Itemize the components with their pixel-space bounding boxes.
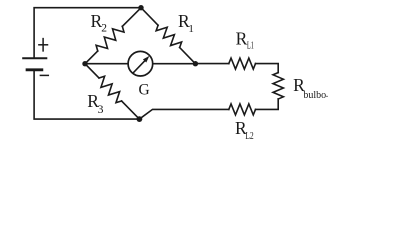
node C junction dot [193,61,198,66]
wire: node B to resistor R2 [85,51,98,64]
wire: resistor RL1 to top-right corner down to Rbulbo [256,64,279,73]
wire: resistor R1 to node C [180,48,196,64]
svg-text:G: G [139,82,150,99]
galvanometer G body [128,51,153,76]
wire: resistor R2 to node A [122,8,141,27]
resistor R3 [99,76,122,102]
svg-text:2: 2 [101,22,107,34]
svg-text:R: R [236,28,248,48]
battery BAT negative plate [27,68,42,71]
wire: node B to galvanometer [85,63,128,65]
resistor R1 [156,25,181,47]
svg-text:.: . [326,89,329,100]
wire: galvanometer to node C [153,63,196,65]
battery BAT positive plate [23,57,46,59]
node A junction dot [138,5,143,10]
resistor Rbulbo [273,73,283,99]
wire: node A to resistor R1 [141,8,158,26]
wire: battery - down and across to node D [34,70,139,119]
galvanometer G needle shaft [134,60,146,72]
wire: resistor RL2 jog down to node D [139,109,228,119]
svg-text:bulbo: bulbo [303,90,326,101]
svg-text:L2: L2 [245,131,254,142]
resistor RL1 [229,58,256,69]
wire: battery + up and across to node A [34,8,141,58]
battery minus sign [40,74,48,76]
node B junction dot [82,61,87,66]
wire: resistor R3 to node D [122,101,140,119]
wire: node C to resistor RL1 [195,63,228,65]
battery plus sign [39,39,48,51]
svg-text:1: 1 [188,23,194,35]
svg-text:3: 3 [98,102,104,116]
svg-text:L1: L1 [247,41,254,52]
resistor RL2 [229,104,256,115]
resistor R2 [96,26,124,51]
node D junction dot [137,116,143,122]
wire: Rbulbo to bottom-right corner across to resistor RL2 [256,99,279,109]
galvanometer G needle arrowhead [143,56,150,63]
wire: node B to resistor R3 [85,64,99,78]
